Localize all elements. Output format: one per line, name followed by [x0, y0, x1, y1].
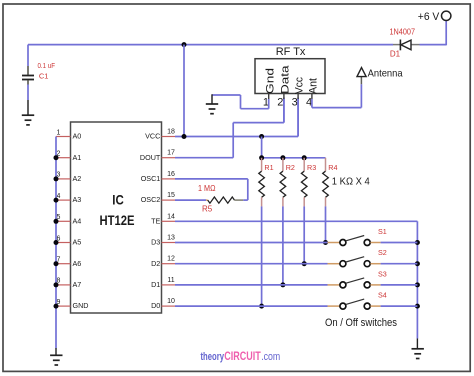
svg-text:R2: R2: [286, 163, 295, 172]
svg-text:TE: TE: [151, 216, 160, 225]
svg-text:18: 18: [167, 129, 175, 136]
svg-text:GND: GND: [73, 301, 89, 310]
svg-text:theory: theory: [201, 351, 225, 363]
svg-text:15: 15: [167, 192, 175, 199]
svg-text:1 KΩ X 4: 1 KΩ X 4: [332, 175, 370, 187]
svg-text:D2: D2: [151, 259, 160, 268]
svg-text:Data: Data: [280, 64, 292, 94]
svg-text:R4: R4: [328, 163, 337, 172]
svg-text:D3: D3: [151, 238, 160, 247]
svg-text:C1: C1: [39, 71, 49, 80]
svg-text:3: 3: [292, 97, 298, 109]
svg-text:A5: A5: [73, 238, 82, 247]
svg-text:A6: A6: [73, 259, 82, 268]
svg-text:R5: R5: [202, 205, 213, 214]
svg-text:2: 2: [277, 97, 283, 109]
svg-text:R1: R1: [264, 163, 273, 172]
svg-text:OSC2: OSC2: [141, 195, 161, 204]
svg-text:0.1 uF: 0.1 uF: [38, 61, 56, 70]
svg-text:A2: A2: [73, 174, 82, 183]
svg-text:IC: IC: [112, 193, 124, 208]
svg-text:D0: D0: [151, 301, 160, 310]
svg-text:On / Off switches: On / Off switches: [325, 317, 398, 329]
svg-text:OSC1: OSC1: [141, 174, 161, 183]
svg-text:13: 13: [167, 235, 175, 242]
svg-text:S4: S4: [378, 291, 387, 300]
svg-text:Ant: Ant: [308, 78, 320, 94]
svg-text:A1: A1: [73, 153, 82, 162]
svg-text:Gnd: Gnd: [264, 68, 276, 94]
svg-text:S1: S1: [378, 227, 387, 236]
svg-text:A7: A7: [73, 280, 82, 289]
svg-text:A0: A0: [73, 132, 82, 141]
svg-text:S2: S2: [378, 248, 387, 257]
svg-text:.com: .com: [261, 351, 280, 363]
svg-text:17: 17: [167, 150, 175, 157]
svg-text:1 MΩ: 1 MΩ: [198, 184, 216, 193]
svg-text:VCC: VCC: [145, 132, 160, 141]
svg-text:12: 12: [167, 256, 175, 263]
svg-text:HT12E: HT12E: [100, 213, 135, 228]
svg-text:16: 16: [167, 171, 175, 178]
svg-text:S3: S3: [378, 269, 387, 278]
svg-text:D1: D1: [151, 280, 160, 289]
svg-text:1N4007: 1N4007: [390, 28, 416, 37]
svg-text:10: 10: [167, 298, 175, 305]
svg-text:A4: A4: [73, 216, 82, 225]
svg-text:RF Tx: RF Tx: [276, 46, 306, 58]
svg-text:Vcc: Vcc: [294, 77, 306, 94]
svg-text:Antenna: Antenna: [368, 68, 403, 80]
svg-text:R3: R3: [307, 163, 316, 172]
svg-text:+6 V: +6 V: [418, 11, 440, 23]
svg-text:CIRCUIT: CIRCUIT: [224, 351, 261, 363]
svg-text:A3: A3: [73, 195, 82, 204]
svg-text:1: 1: [57, 129, 61, 136]
svg-text:14: 14: [167, 213, 175, 220]
svg-text:DOUT: DOUT: [140, 153, 161, 162]
svg-text:11: 11: [167, 277, 174, 284]
svg-text:D1: D1: [390, 50, 401, 59]
